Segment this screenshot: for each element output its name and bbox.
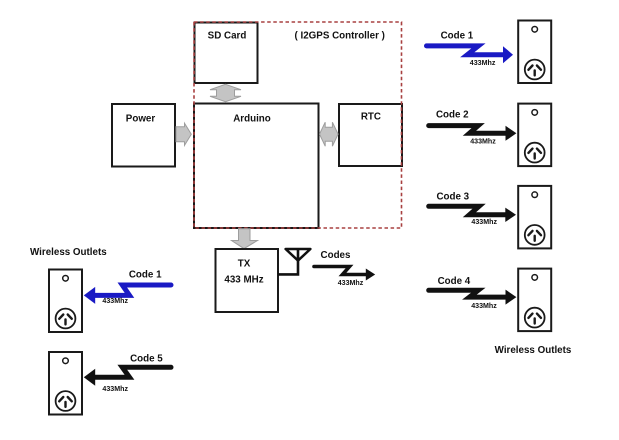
label 433Mhz (right 2) [470,137,496,145]
black arrow Code 2 [429,126,517,141]
svg-text:Arduino: Arduino [233,114,271,125]
black arrow Code 3 [429,206,516,222]
svg-text:Power: Power [126,114,156,125]
label 433Mhz (right 4) [471,302,497,310]
svg-text:Code 1: Code 1 [441,30,474,41]
black arrow Code 4 [429,290,517,305]
svg-text:433Mhz: 433Mhz [338,279,364,287]
label 433Mhz (right 1) [470,59,496,67]
antenna on TX [278,249,310,274]
label Code 5 [130,353,163,364]
svg-text:Code 2: Code 2 [436,109,469,120]
wireless outlet right 4 [518,269,551,332]
wireless outlet right 2 [518,104,551,167]
svg-text:433Mhz: 433Mhz [471,302,497,310]
svg-text:RTC: RTC [361,112,381,123]
arrow Codes 433Mhz (small black zigzag) [314,267,375,288]
svg-text:433 MHz: 433 MHz [224,275,263,286]
svg-text:Code 4: Code 4 [438,276,471,287]
svg-text:433Mhz: 433Mhz [470,137,496,145]
gray arrow Arduino to RTC (double) [320,122,339,146]
svg-text:Wireless Outlets: Wireless Outlets [30,247,107,258]
label Wireless Outlets (left) [30,247,107,258]
label 433Mhz (left 2) [102,385,128,393]
blue arrow Code 1 (right) [427,46,514,63]
label Codes [321,250,351,261]
block Power [112,104,175,167]
svg-text:Codes: Codes [321,250,351,261]
block SD Card [195,23,258,84]
gray arrow SD Card to Arduino (double) [210,84,241,101]
label Wireless Outlets (right) [495,345,572,356]
label Code 1 (left) [129,269,162,280]
svg-text:433Mhz: 433Mhz [102,297,128,305]
gray arrow Power to Arduino [176,123,191,145]
label 433Mhz (left 1) [102,297,128,305]
label Code 4 [438,276,471,287]
gray arrow Arduino to TX [232,229,258,249]
block Arduino [194,104,319,229]
dashed I2GPS Controller boundary [194,22,402,228]
svg-text:433Mhz: 433Mhz [102,385,128,393]
label Code 1 (right) [441,30,474,41]
block TX 433 MHz [216,249,279,312]
wireless outlet right 1 [518,21,551,84]
wireless outlet right 3 [518,186,551,249]
svg-text:433Mhz: 433Mhz [470,59,496,67]
wireless outlet left 2 [49,352,82,415]
label I2GPS Controller [295,31,385,42]
label Code 3 [436,192,469,203]
black arrow Code 5 [84,367,171,386]
block RTC [339,104,402,166]
svg-text:TX: TX [238,259,251,270]
svg-text:Wireless Outlets: Wireless Outlets [495,345,572,356]
svg-text:Code 1: Code 1 [129,269,162,280]
svg-text:SD Card: SD Card [208,31,247,42]
svg-text:433Mhz: 433Mhz [471,218,497,226]
label Code 2 [436,109,469,120]
svg-text:Code 5: Code 5 [130,353,163,364]
label 433Mhz (right 3) [471,218,497,226]
blue arrow Code 1 (left) [84,285,171,304]
wireless outlet left 1 [49,270,82,333]
svg-text:Code 3: Code 3 [436,192,469,203]
svg-text:( I2GPS Controller ): ( I2GPS Controller ) [295,31,385,42]
